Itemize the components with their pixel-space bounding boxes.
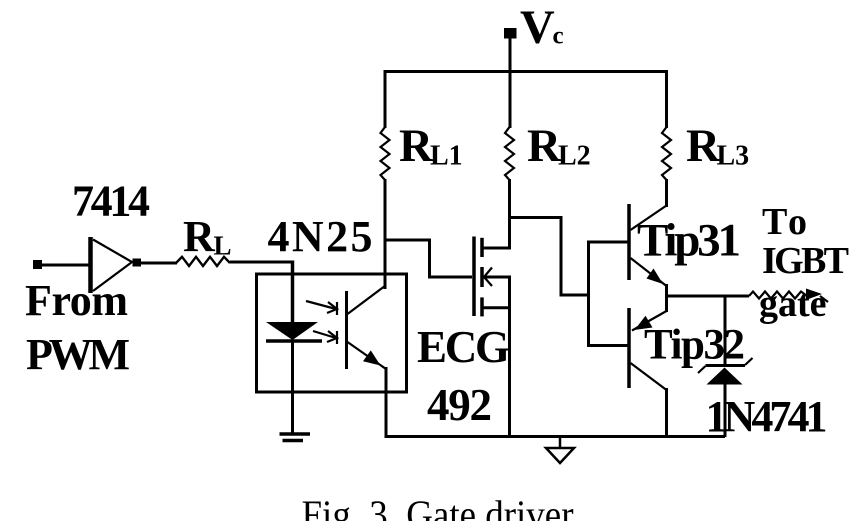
LED light arrow 1 xyxy=(306,301,337,315)
svg-text:From: From xyxy=(25,276,128,325)
MOSFET ECG492 xyxy=(474,237,511,317)
bottom rail xyxy=(386,435,725,438)
svg-text:L1: L1 xyxy=(430,141,463,172)
inverter U1 7414 xyxy=(91,237,133,293)
svg-text:R: R xyxy=(399,120,434,172)
wire inverter to RL xyxy=(141,262,177,265)
Vc terminal square xyxy=(504,28,517,39)
svg-text:4N25: 4N25 xyxy=(268,212,373,261)
svg-text:c: c xyxy=(553,23,564,50)
svg-text:PWM: PWM xyxy=(26,330,130,379)
svg-text:V: V xyxy=(520,1,555,54)
wire rail to RL3 xyxy=(665,70,668,128)
zener diode 1N4741 xyxy=(698,296,753,437)
resistor RL3 xyxy=(662,127,671,180)
wire branch to transistor bases xyxy=(510,218,589,296)
phototransistor base xyxy=(345,291,348,369)
wire LED anode xyxy=(291,261,295,324)
transistor Q2 Tip32 xyxy=(629,295,667,438)
svg-text:IGBT: IGBT xyxy=(762,240,849,282)
resistor RL2 xyxy=(505,127,514,180)
svg-text:R: R xyxy=(183,212,216,261)
svg-text:L3: L3 xyxy=(717,141,750,172)
svg-text:Tip32: Tip32 xyxy=(644,322,745,369)
wire RL2 to drain xyxy=(508,179,511,249)
svg-text:1N4741: 1N4741 xyxy=(706,392,828,441)
ground (opto) xyxy=(280,434,311,441)
output arrow terminal xyxy=(806,289,828,303)
input terminal square xyxy=(33,260,42,269)
wire RL1 to opto collector xyxy=(384,179,387,289)
svg-text:7414: 7414 xyxy=(72,177,150,226)
svg-text:Tip31: Tip31 xyxy=(637,215,741,267)
wire LED cathode to ground xyxy=(291,341,294,434)
svg-text:492: 492 xyxy=(427,380,492,430)
inverter output square xyxy=(133,259,142,267)
transistor Q1 Tip31 xyxy=(629,204,667,297)
svg-text:gate: gate xyxy=(759,283,827,325)
wire input to inverter xyxy=(42,264,90,267)
svg-text:L: L xyxy=(214,231,232,261)
phototransistor emitter xyxy=(348,342,387,369)
output wire xyxy=(667,295,750,298)
4N25 box xyxy=(257,274,407,392)
wire emitter to bottom rail xyxy=(385,367,388,438)
wire RL3 to Tip31 collector xyxy=(665,179,668,207)
phototransistor collector xyxy=(348,286,386,315)
resistor RL1 xyxy=(381,127,390,180)
wire junction to MOSFET gate xyxy=(385,240,472,277)
wire Vc down xyxy=(509,38,512,128)
svg-text:Fig. 3. Gate driver: Fig. 3. Gate driver xyxy=(302,492,574,521)
output squiggle wire to IGBT gate xyxy=(749,292,807,299)
svg-text:R: R xyxy=(527,120,562,172)
wire rail to RL1 xyxy=(384,70,387,128)
LED light arrow 2 xyxy=(313,331,337,344)
top rail xyxy=(385,70,667,73)
LED D1 xyxy=(266,322,322,341)
wire base bracket xyxy=(589,242,630,346)
svg-text:ECG: ECG xyxy=(417,322,510,372)
ground (signal triangle) xyxy=(546,436,574,463)
wire RL to optocoupler xyxy=(230,261,294,264)
svg-text:L2: L2 xyxy=(558,141,591,172)
wire MOSFET source to bottom rail xyxy=(508,277,511,438)
resistor RL xyxy=(176,257,230,266)
